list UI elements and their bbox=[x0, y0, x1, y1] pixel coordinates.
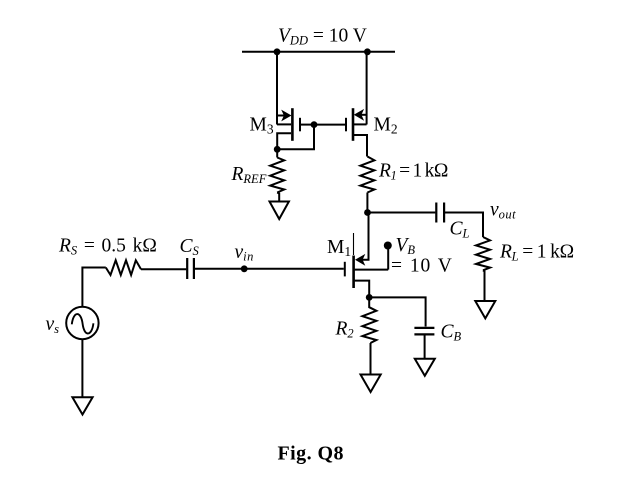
node gate junction bbox=[311, 121, 318, 128]
node drain junction bbox=[364, 209, 371, 216]
ground below RL bbox=[475, 301, 495, 318]
resistor RL bbox=[476, 237, 490, 270]
capacitor CL bbox=[436, 203, 444, 223]
label RL = 1 kOhm bbox=[499, 242, 574, 264]
svg-text:M2: M2 bbox=[374, 115, 398, 137]
svg-text:CL: CL bbox=[450, 219, 470, 241]
wire R2 to ground bbox=[370, 343, 372, 375]
svg-text:= 10 V: = 10 V bbox=[391, 256, 453, 277]
label M1 bbox=[327, 237, 351, 259]
label M3 bbox=[250, 115, 274, 137]
caption Fig. Q8 bbox=[278, 443, 344, 465]
wire CL to vout corner bbox=[445, 213, 483, 238]
label R2 bbox=[335, 319, 354, 341]
ground below RREF bbox=[270, 202, 289, 220]
resistor RREF bbox=[270, 158, 284, 193]
capacitor CS bbox=[187, 258, 194, 279]
label = 10 V bbox=[391, 256, 453, 277]
resistor R2 bbox=[362, 297, 376, 343]
svg-text:vout: vout bbox=[490, 200, 516, 222]
svg-text:Fig. Q8: Fig. Q8 bbox=[278, 443, 344, 465]
wire drain node down to M1 bbox=[361, 213, 369, 260]
wire M2 source from VDD bbox=[366, 52, 368, 125]
label RS = 0.5 kOhm bbox=[58, 236, 157, 258]
wire M3 source from VDD bbox=[276, 52, 278, 125]
label VB bbox=[396, 235, 416, 257]
svg-text:CB: CB bbox=[441, 322, 462, 344]
wire gate node down to M3 drain (diode connection) bbox=[277, 125, 314, 150]
svg-text:RS = 0.5 kΩ: RS = 0.5 kΩ bbox=[58, 236, 157, 258]
wire CB to ground bbox=[424, 334, 426, 358]
wire VDD top rail bbox=[242, 51, 395, 53]
svg-text:RL = 1 kΩ: RL = 1 kΩ bbox=[499, 242, 574, 264]
wire drain node to CL bbox=[368, 212, 436, 214]
wire vs to ground bbox=[81, 339, 83, 397]
wire RS to CS bbox=[141, 268, 186, 270]
svg-text:VDD = 10 V: VDD = 10 V bbox=[278, 26, 367, 48]
svg-text:RREF: RREF bbox=[231, 164, 267, 186]
resistor RS bbox=[106, 260, 141, 275]
transistor M1 bbox=[345, 233, 388, 297]
wire vs top corner to RS bbox=[82, 268, 105, 307]
label CB bbox=[441, 322, 462, 344]
ground below vs bbox=[72, 397, 92, 414]
label R1 = 1 kOhm bbox=[378, 161, 448, 183]
label RREF bbox=[231, 164, 267, 186]
svg-text:vs: vs bbox=[46, 314, 60, 336]
label CL bbox=[450, 219, 470, 241]
svg-text:VB: VB bbox=[396, 235, 416, 257]
wire source node to CB bbox=[369, 297, 425, 326]
wire R1 to drain node bbox=[366, 193, 368, 213]
label vin bbox=[235, 242, 254, 264]
ground below R2 bbox=[361, 375, 381, 393]
node VDD-M3 junction bbox=[274, 48, 281, 55]
svg-text:M3: M3 bbox=[250, 115, 274, 137]
label VDD = 10 V bbox=[278, 26, 367, 48]
wire gate node to M2 gate bbox=[314, 124, 345, 126]
wire RREF to ground bbox=[277, 193, 279, 202]
transistor M3 bbox=[277, 108, 300, 157]
svg-text:R1 = 1 kΩ: R1 = 1 kΩ bbox=[378, 161, 448, 183]
node vin bbox=[241, 265, 248, 272]
node M1 source junction bbox=[366, 294, 373, 301]
capacitor CB bbox=[414, 328, 434, 335]
resistor R1 bbox=[360, 157, 374, 193]
wire RL to ground bbox=[483, 270, 485, 301]
label vs bbox=[46, 314, 60, 336]
label vout bbox=[490, 200, 516, 222]
wire M3 gate lead to node bbox=[301, 124, 314, 126]
node M3 drain junction bbox=[274, 146, 281, 153]
svg-text:R2: R2 bbox=[335, 319, 354, 341]
wire VB stub bbox=[387, 248, 389, 270]
svg-text:vin: vin bbox=[235, 242, 254, 264]
transistor M2 bbox=[346, 108, 367, 156]
label M2 bbox=[374, 115, 398, 137]
ground below CB bbox=[415, 359, 435, 376]
label CS bbox=[180, 236, 200, 258]
svg-text:CS: CS bbox=[180, 236, 200, 258]
svg-text:M1: M1 bbox=[327, 237, 351, 259]
wire input from CS to M1 gate bbox=[195, 268, 344, 270]
node VDD-M2 junction bbox=[364, 48, 371, 55]
node VB terminal dot bbox=[384, 242, 392, 250]
source vs bbox=[66, 307, 98, 339]
